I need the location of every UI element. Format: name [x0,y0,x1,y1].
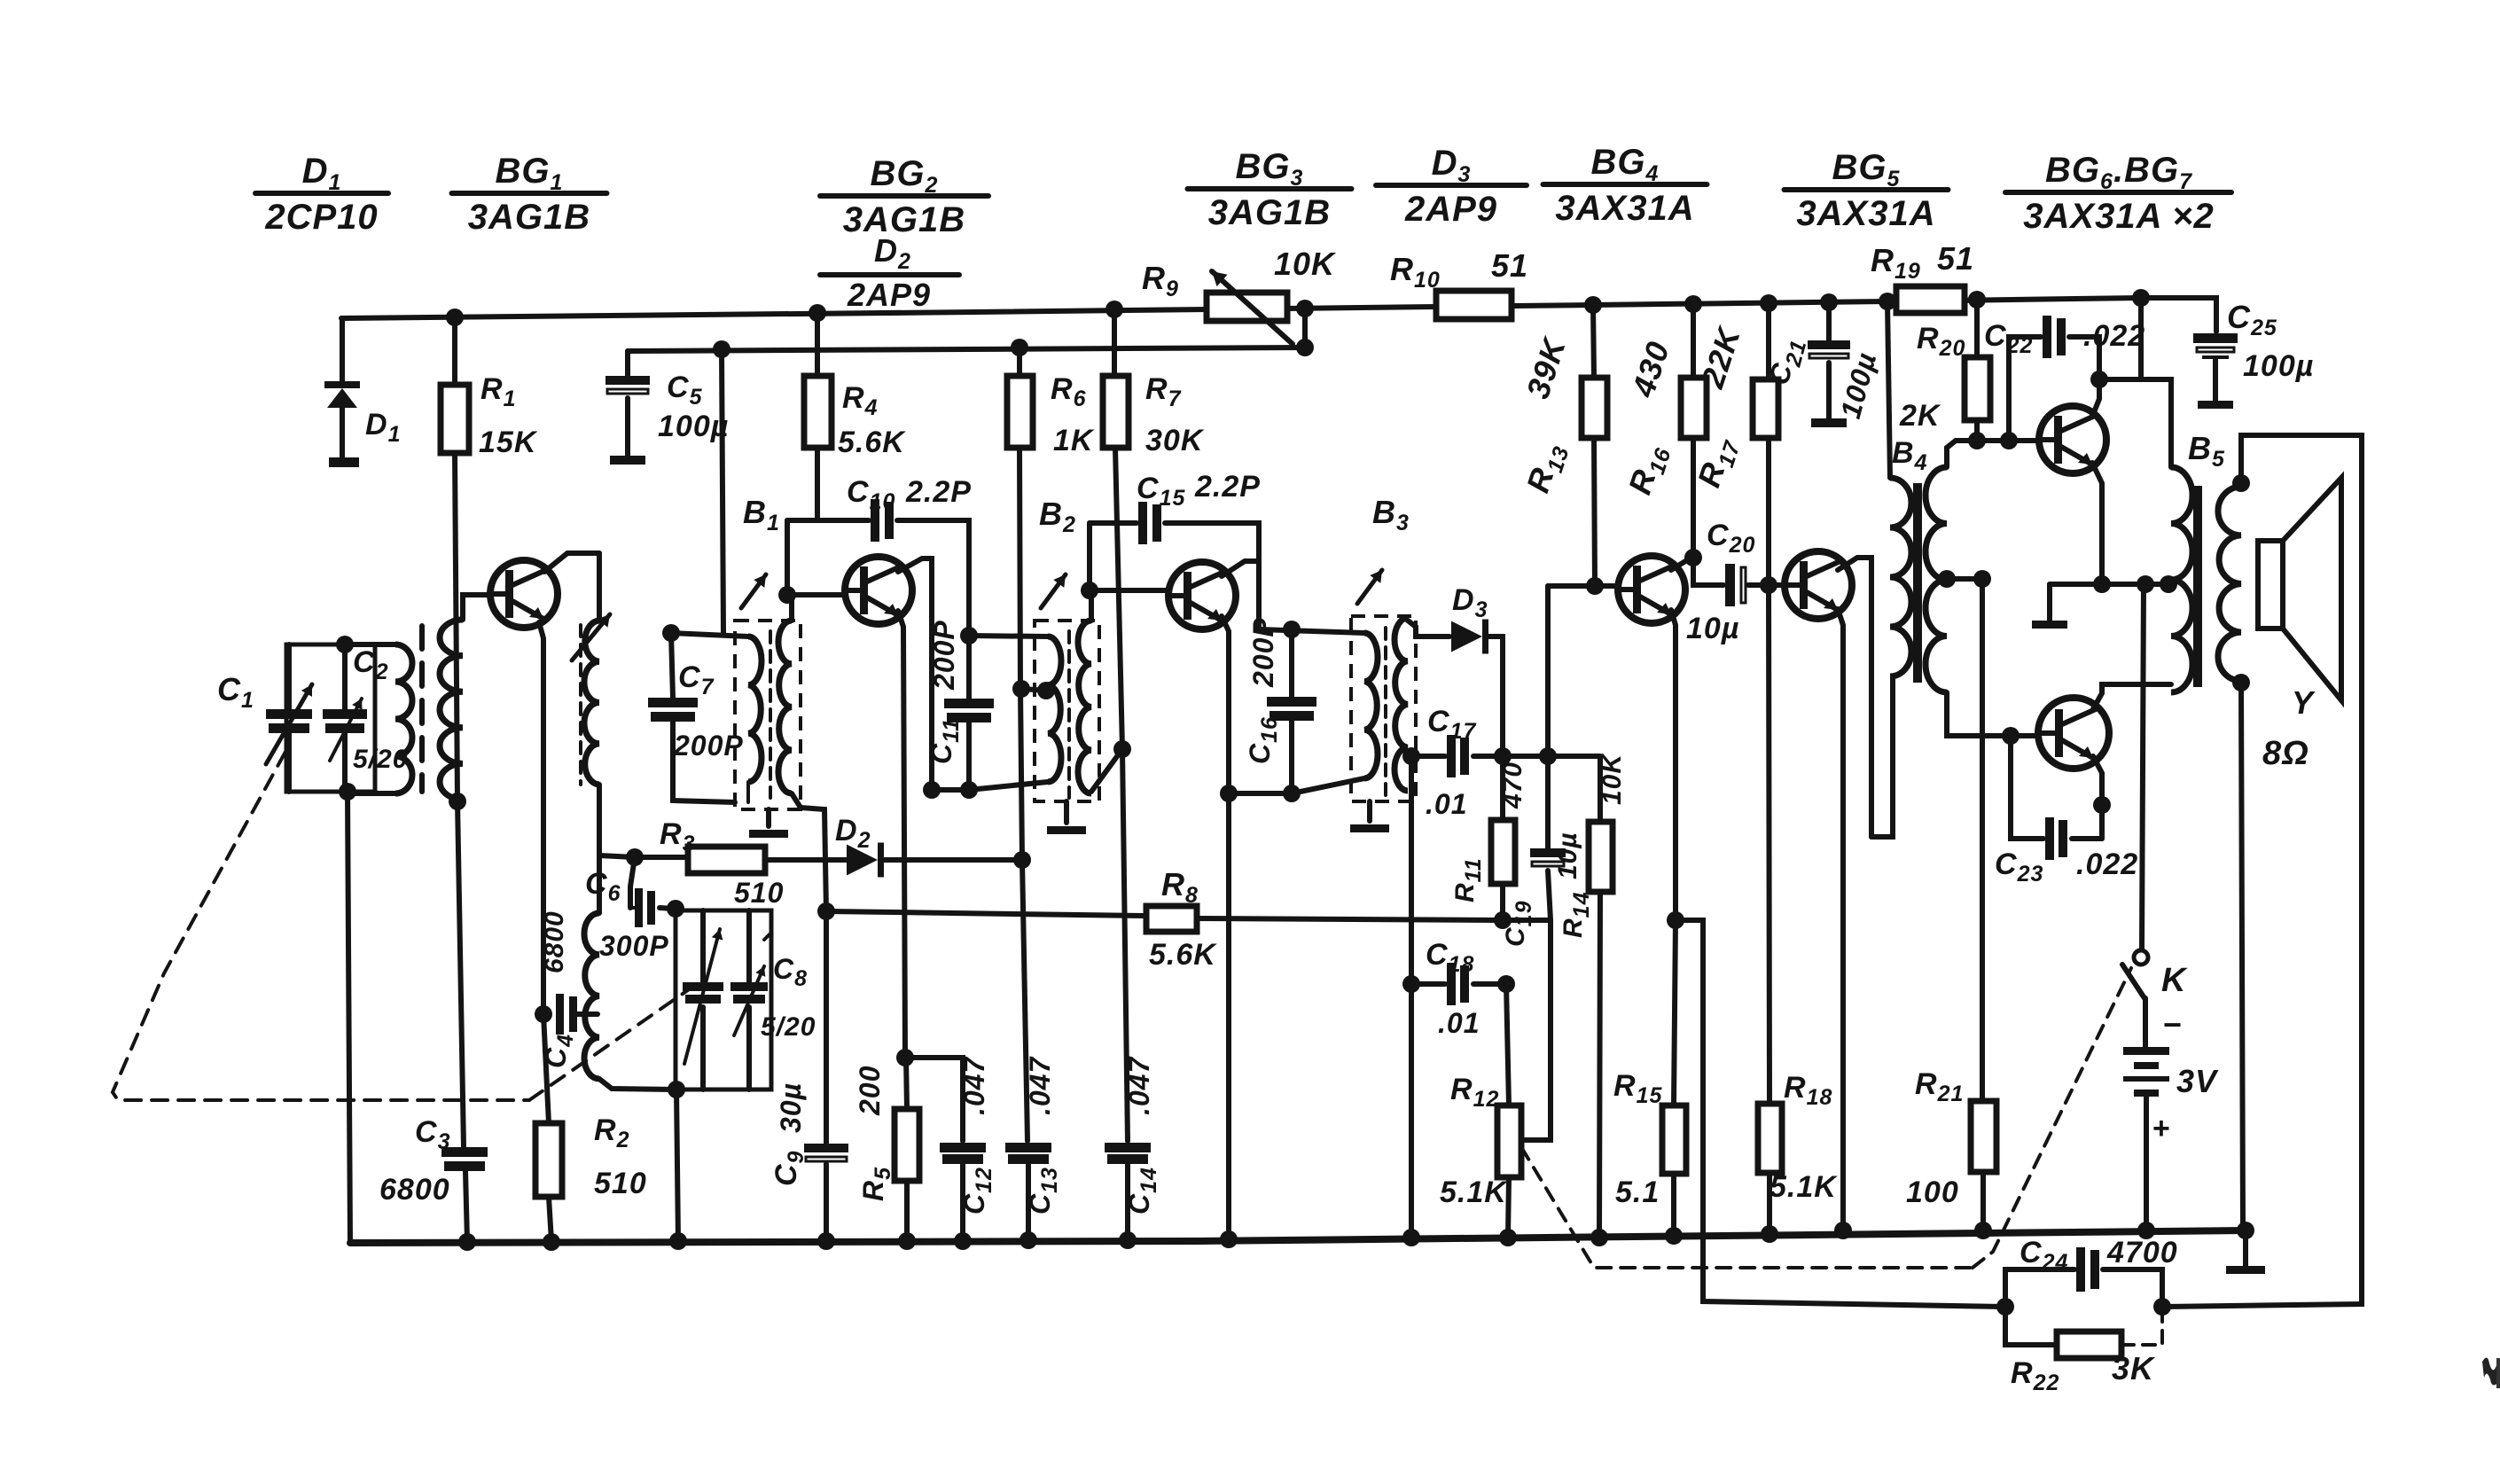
svg-text:5.1K: 5.1K [1440,1175,1508,1209]
svg-text:10µ: 10µ [1553,832,1582,879]
svg-text:100: 100 [1906,1175,1959,1209]
svg-text:470: 470 [1498,762,1527,809]
svg-text:3V: 3V [2176,1063,2219,1099]
svg-text:10µ: 10µ [1686,612,1739,645]
svg-text:51: 51 [1937,240,1974,277]
svg-text:2CP10: 2CP10 [264,198,378,237]
svg-text:10K: 10K [1274,246,1337,282]
svg-text:K: K [2161,962,2188,999]
svg-text:−: − [2163,1006,2183,1043]
svg-text:3AX31A: 3AX31A [1796,194,1935,233]
svg-text:BG6.BG7: BG6.BG7 [2045,151,2192,194]
svg-text:6800: 6800 [540,910,569,973]
svg-text:51: 51 [1491,247,1528,284]
svg-text:200P: 200P [673,730,744,762]
svg-text:.01: .01 [1426,788,1467,820]
svg-text:15K: 15K [479,426,538,459]
svg-text:510: 510 [594,1167,647,1200]
svg-text:3K: 3K [2112,1350,2156,1386]
svg-text:5.6K: 5.6K [1149,938,1217,972]
svg-text:300P: 300P [599,930,669,962]
svg-text:.047: .047 [1024,1056,1056,1115]
svg-text:6800: 6800 [379,1173,450,1207]
svg-text:100µ: 100µ [658,410,729,443]
svg-text:.022: .022 [2076,847,2138,881]
svg-text:5.1: 5.1 [1615,1175,1660,1209]
svg-text:2.2P: 2.2P [905,475,972,509]
svg-text:200: 200 [854,1066,886,1116]
svg-text:8Ω: 8Ω [2262,735,2309,772]
svg-text:Y: Y [2292,684,2316,721]
svg-text:.01: .01 [1438,1007,1480,1039]
svg-text:3AX31A ×2: 3AX31A ×2 [2023,197,2214,236]
svg-text:.047: .047 [1123,1056,1155,1115]
svg-text:1K: 1K [1053,424,1095,457]
svg-text:.022: .022 [2083,319,2145,353]
svg-text:10K: 10K [1598,753,1627,805]
svg-text:510: 510 [734,877,784,909]
svg-text:2AP9: 2AP9 [1404,190,1497,229]
svg-text:30K: 30K [1145,424,1205,457]
svg-text:5/20: 5/20 [761,1012,816,1042]
svg-text:+: + [2152,1112,2171,1145]
svg-text:200P: 200P [1247,617,1279,688]
svg-text:2AP9: 2AP9 [847,277,931,313]
svg-text:3AX31A: 3AX31A [1555,189,1694,228]
svg-text:3AG1B: 3AG1B [843,200,965,239]
svg-text:4700: 4700 [2106,1236,2178,1269]
svg-text:3AG1B: 3AG1B [468,198,590,237]
svg-text:200P: 200P [928,620,960,691]
svg-text:3AG1B: 3AG1B [1208,193,1331,232]
svg-text:2.2P: 2.2P [1194,470,1261,504]
svg-text:30µ: 30µ [775,1082,807,1133]
svg-text:5.1K: 5.1K [1770,1170,1838,1204]
svg-text:100µ: 100µ [2243,349,2314,383]
svg-text:5.6K: 5.6K [838,426,906,459]
svg-text:2K: 2K [1899,399,1941,433]
svg-text:.047: .047 [958,1056,990,1115]
